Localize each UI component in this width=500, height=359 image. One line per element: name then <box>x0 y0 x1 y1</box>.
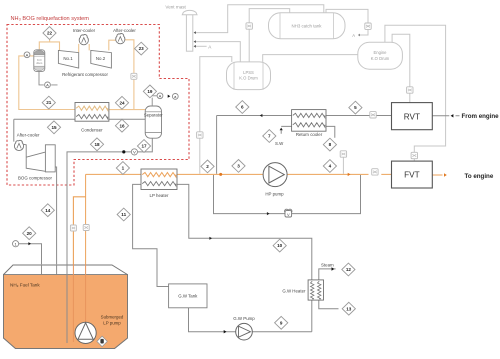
wire: condenser to separator (gray) <box>109 118 145 120</box>
wire: catch tank vent to mast (A line top) <box>196 5 324 33</box>
heat exchanger: Return cooler <box>292 110 326 137</box>
svg-text:To engine: To engine <box>465 173 494 180</box>
fan: Inter-cooler <box>79 35 88 45</box>
valve V8 on product line <box>372 169 378 175</box>
connector (a) separator <box>172 94 178 100</box>
wire: HP pump bypass loop <box>214 175 361 214</box>
wire: engine KO drum to FVT vent <box>385 25 446 161</box>
diamond 13 <box>342 302 355 315</box>
svg-text:LP pump: LP pump <box>103 320 121 325</box>
wire: recirculation branch to tank <box>73 197 85 342</box>
diamond 2 <box>201 160 214 173</box>
vessel: Separator <box>144 106 163 138</box>
diamond 7 <box>263 130 276 143</box>
wire: refrigerant loop (pale) <box>39 40 59 51</box>
wire: receiver bottom to connector A <box>39 71 58 85</box>
svg-text:Separator: Separator <box>144 112 163 117</box>
svg-text:8: 8 <box>329 142 332 147</box>
vent mast <box>182 10 197 51</box>
svg-text:After-cooler: After-cooler <box>113 28 136 33</box>
wire: HP pump suction drop <box>216 116 218 174</box>
connector circle 1 <box>13 241 19 247</box>
boundary: NH3 BOG reliquefaction system dashed box <box>7 25 189 186</box>
svg-text:LPSS: LPSS <box>243 70 254 75</box>
svg-text:G.W Pump: G.W Pump <box>233 316 255 321</box>
svg-text:22: 22 <box>47 31 53 36</box>
svg-text:17: 17 <box>141 144 147 149</box>
valve V7 relief <box>340 151 346 157</box>
valve V12 RVT line <box>370 112 376 118</box>
svg-text:From engine: From engine <box>462 113 500 120</box>
svg-text:NH3 catch tank: NH3 catch tank <box>291 24 322 29</box>
node: bypass flow arrow <box>267 212 270 215</box>
diamond 4 <box>323 160 336 173</box>
svg-text:S.W: S.W <box>275 141 284 146</box>
fan: After-cooler (refrigerant) <box>116 34 125 44</box>
svg-text:FVT: FVT <box>404 171 419 180</box>
wire: condenser shell inlet from after-cooler <box>14 119 75 141</box>
diamond 12 <box>342 263 355 276</box>
svg-text:Inter-cooler: Inter-cooler <box>73 28 96 33</box>
compressor: Refrigerant No.1 <box>58 50 78 68</box>
svg-text:18: 18 <box>94 142 100 147</box>
svg-text:No.1: No.1 <box>63 56 73 61</box>
svg-text:4: 4 <box>329 164 332 169</box>
valve V10 recirc <box>70 225 76 231</box>
wire: BOG compressor suction from tank <box>55 167 56 264</box>
wire: GW tank to GW pump to heater <box>189 308 312 332</box>
box: RVT <box>392 103 433 130</box>
wire: LPSS drum vent to mast <box>196 42 240 62</box>
svg-text:7: 7 <box>268 134 271 139</box>
svg-text:G.W Heater: G.W Heater <box>282 288 306 293</box>
wire: S.W inlet to return cooler <box>281 126 291 133</box>
svg-text:5: 5 <box>354 105 357 110</box>
diamond 24 <box>115 96 128 109</box>
wire: receiver to condenser coil <box>19 56 75 110</box>
svg-text:NH₃ BOG reliquefaction system: NH₃ BOG reliquefaction system <box>11 16 90 22</box>
node: flow arrow on RVT line <box>260 114 263 117</box>
svg-text:K.O Drum: K.O Drum <box>371 56 390 61</box>
wire: main NH3 fuel line (orange) <box>86 173 392 175</box>
wire: in-tank lines <box>42 264 68 343</box>
wire: steam inlet <box>319 269 336 280</box>
wire: submerged pump riser <box>85 174 87 322</box>
diamond 23 <box>135 42 148 55</box>
connector (A) below receiver <box>45 82 51 88</box>
diamond 22 <box>43 27 56 40</box>
diamond 15 <box>47 121 60 134</box>
svg-text:RVT: RVT <box>404 112 420 121</box>
svg-text:11: 11 <box>121 212 126 217</box>
svg-text:Condenser: Condenser <box>81 127 103 132</box>
wire: FVT to engine (orange) <box>432 174 442 176</box>
node: vent mast inlet arrows <box>194 31 196 34</box>
node: fuel line flow arrow <box>348 173 351 176</box>
vessel: refrigerant receiver <box>34 50 45 72</box>
svg-text:G.W Tank: G.W Tank <box>178 294 198 299</box>
vessel: G.W tank <box>169 284 207 308</box>
diamond 6 <box>236 101 249 114</box>
valve V9 refrigerant <box>131 73 137 79</box>
diamond 8 <box>323 138 336 151</box>
valve V6 bypass control valve <box>285 209 293 217</box>
valve V5 RVT top <box>407 87 413 93</box>
vessel: LPSS KO drum <box>227 62 271 90</box>
wire: relief branch off product line <box>342 157 344 174</box>
wire: engine KO drum to RVT vent <box>392 34 410 102</box>
connector (A) receiver side <box>24 52 30 58</box>
svg-text:15: 15 <box>51 125 57 130</box>
box: FVT <box>392 161 433 188</box>
svg-text:NH₃ Fuel Tank: NH₃ Fuel Tank <box>10 283 40 288</box>
svg-text:After-cooler: After-cooler <box>17 133 40 138</box>
svg-text:Return cooler: Return cooler <box>296 132 323 137</box>
diamond 19 <box>143 85 156 98</box>
svg-text:10: 10 <box>277 243 283 248</box>
svg-text:HP pump: HP pump <box>265 191 284 196</box>
svg-text:A: A <box>46 83 49 88</box>
svg-text:24: 24 <box>119 100 125 105</box>
compressor: Refrigerant No.2 <box>91 50 112 68</box>
svg-text:A: A <box>26 53 29 58</box>
vessel: Engine KO drum <box>358 42 403 69</box>
diamond 5 <box>349 101 362 114</box>
diamond 1 <box>116 162 129 175</box>
svg-text:Refrigerant compressor: Refrigerant compressor <box>62 72 108 77</box>
valve V11 pump discharge <box>83 225 89 231</box>
wire: steam drain <box>319 300 339 309</box>
diamond 20 <box>23 227 36 240</box>
svg-text:14: 14 <box>45 208 51 213</box>
svg-text:6: 6 <box>241 105 244 110</box>
indicator diamond at submerged pump <box>97 336 107 346</box>
diamond 14 <box>41 204 54 217</box>
svg-text:16: 16 <box>119 123 125 128</box>
svg-text:K.O Drum: K.O Drum <box>239 76 258 81</box>
svg-text:20: 20 <box>27 231 33 236</box>
svg-text:Submerged: Submerged <box>101 314 124 319</box>
node: return flow dot <box>122 150 125 153</box>
valve V2 vent-to-A <box>365 23 371 29</box>
node: junction dot on fuel line <box>219 173 222 176</box>
svg-text:9: 9 <box>280 320 283 325</box>
svg-text:No.2: No.2 <box>96 56 106 61</box>
svg-text:21: 21 <box>46 100 52 105</box>
wire: catch tank to engine vent A <box>326 9 368 35</box>
diamond 3 <box>232 160 245 173</box>
svg-text:3: 3 <box>237 164 240 169</box>
wire: condenser to separator (orange) <box>109 109 145 111</box>
wire: stream 1 into tank <box>19 244 42 265</box>
pump: Submerged LP pump <box>75 314 124 343</box>
heat exchanger: G.W heater <box>282 280 323 300</box>
diamond 16 <box>115 119 128 132</box>
wire: separator vent <box>152 96 157 106</box>
wire: LPSS drum left drain down to LP line <box>200 57 232 174</box>
heat exchanger: LP heater <box>141 169 177 198</box>
wire: S.W outlet <box>326 126 335 137</box>
valve V4 FVT top <box>411 152 417 158</box>
heat exchanger: Condenser <box>75 103 109 133</box>
svg-text:12: 12 <box>346 267 352 272</box>
svg-text:LP heater: LP heater <box>150 193 169 198</box>
diamond 21 <box>42 96 55 109</box>
vessel: NH3 catch tank <box>269 13 346 39</box>
diamond 9 <box>275 316 288 329</box>
fan: After-cooler (BOG) <box>14 140 23 150</box>
svg-text:2: 2 <box>206 164 209 169</box>
svg-text:Steam: Steam <box>321 263 334 268</box>
vessel: NH3 fuel tank <box>4 265 128 349</box>
pump: HP pump <box>263 163 287 197</box>
svg-text:A: A <box>352 33 355 38</box>
svg-text:A: A <box>159 94 162 99</box>
diamond 10 <box>273 239 286 252</box>
svg-text:Engine: Engine <box>373 50 387 55</box>
svg-text:19: 19 <box>147 89 153 94</box>
svg-text:1: 1 <box>122 166 125 171</box>
wire: catch tank to LPSS valve line <box>249 9 290 62</box>
svg-text:BOG compressor: BOG compressor <box>18 176 52 181</box>
diamond 17 <box>137 140 150 153</box>
diamond 11 <box>117 208 130 221</box>
wire: LP heater glycol out to GW heater <box>177 184 312 331</box>
connector (V) <box>131 149 137 155</box>
pump: G.W pump <box>233 316 255 340</box>
compressor: BOG compressor <box>24 144 56 172</box>
svg-text:23: 23 <box>139 46 145 51</box>
valve V3 LPSS drain <box>197 132 203 138</box>
wire: LP heater glycol in <box>133 184 169 286</box>
svg-text:V: V <box>133 150 136 155</box>
wire: separator liquid return to fuel tank <box>67 138 152 343</box>
valve V1 catch-tank/LPSS <box>246 23 252 29</box>
svg-text:13: 13 <box>346 306 352 311</box>
svg-text:Vent mast: Vent mast <box>165 4 186 9</box>
diamond 18 <box>90 138 103 151</box>
wire: vent connector A stub <box>196 45 207 47</box>
wire: RVT to From-engine <box>432 115 459 117</box>
wire: LPSS to engine KO drum <box>263 55 358 62</box>
connector (A) separator <box>157 93 163 99</box>
svg-text:V: V <box>287 212 290 217</box>
svg-text:drum: drum <box>36 61 42 65</box>
wire: RVT supply line through return cooler <box>217 115 392 117</box>
